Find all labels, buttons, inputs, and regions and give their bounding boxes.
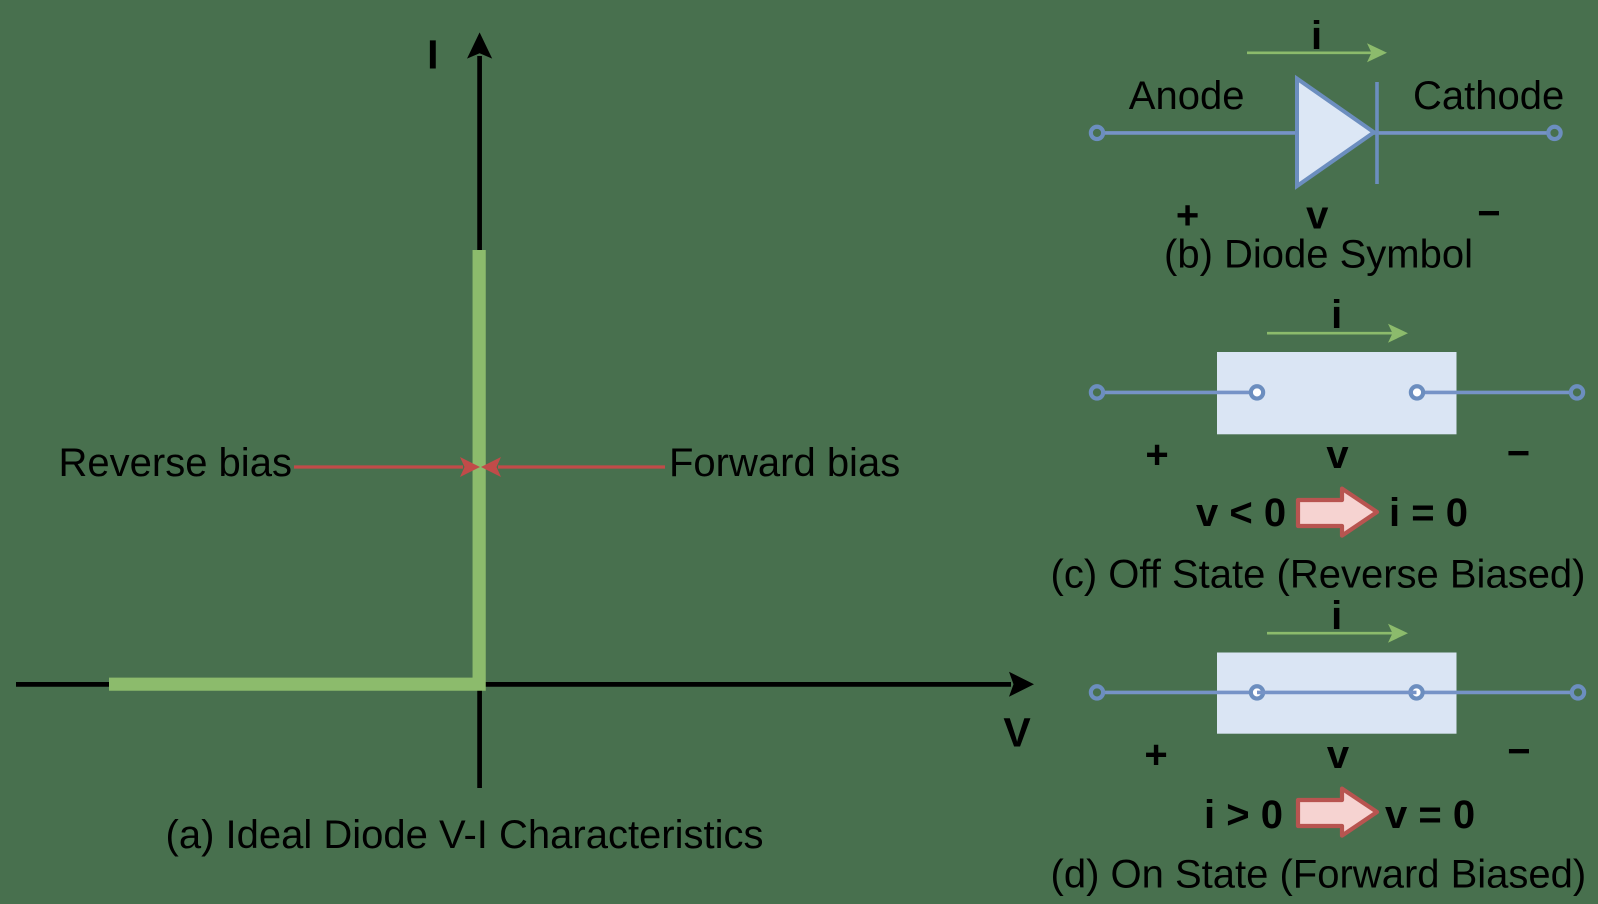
- svg-text:+: +: [1145, 433, 1168, 477]
- current arrow (green): [1247, 43, 1387, 62]
- I axis (vertical): [467, 32, 492, 788]
- right inner terminal: [1411, 386, 1423, 398]
- right outer terminal: [1572, 686, 1584, 698]
- left outer terminal: [1091, 686, 1103, 698]
- svg-text:v < 0: v < 0: [1196, 491, 1286, 535]
- right inner terminal: [1410, 686, 1422, 698]
- forward bias arrow (red, pointing left to origin): [481, 457, 665, 477]
- reverse bias arrow (red, pointing right to origin): [294, 457, 480, 477]
- svg-text:i = 0: i = 0: [1389, 491, 1468, 535]
- svg-text:+: +: [1144, 733, 1167, 777]
- svg-text:+: +: [1176, 194, 1199, 238]
- right wire: [1425, 691, 1571, 695]
- V axis (horizontal): [16, 672, 1034, 697]
- right wire: [1425, 391, 1569, 395]
- svg-text:−: −: [1477, 192, 1500, 236]
- through wire (short circuit): [1257, 691, 1417, 695]
- svg-text:(d) On State (Forward Biased): (d) On State (Forward Biased): [1051, 853, 1587, 897]
- svg-text:v: v: [1326, 433, 1349, 477]
- right outer terminal: [1571, 386, 1583, 398]
- left outer terminal: [1091, 386, 1103, 398]
- svg-text:(a) Ideal Diode V-I Characteri: (a) Ideal Diode V-I Characteristics: [166, 813, 764, 857]
- anode terminal: [1091, 127, 1103, 139]
- implies block arrow: [1298, 489, 1377, 536]
- svg-text:Cathode: Cathode: [1413, 74, 1564, 118]
- left wire: [1105, 391, 1249, 395]
- svg-text:V: V: [1003, 710, 1031, 756]
- svg-text:−: −: [1507, 730, 1530, 774]
- diode cathode bar: [1375, 82, 1379, 184]
- svg-text:Anode: Anode: [1129, 74, 1245, 118]
- left inner terminal: [1251, 386, 1263, 398]
- implies block arrow: [1298, 789, 1377, 836]
- svg-text:v: v: [1327, 733, 1350, 777]
- diode body box: [1217, 352, 1457, 434]
- svg-text:Reverse bias: Reverse bias: [59, 441, 292, 485]
- diode D triangle: [1297, 79, 1374, 186]
- svg-text:i: i: [1331, 293, 1342, 337]
- svg-text:v = 0: v = 0: [1385, 793, 1475, 837]
- cathode terminal: [1548, 127, 1560, 139]
- diode body box: [1217, 653, 1457, 734]
- left wire: [1105, 691, 1249, 695]
- ideal diode V-I curve (green): [109, 250, 479, 684]
- svg-text:(c) Off State (Reverse Biased): (c) Off State (Reverse Biased): [1051, 553, 1586, 597]
- svg-text:i > 0: i > 0: [1204, 793, 1283, 837]
- current arrow (green): [1267, 624, 1408, 643]
- current arrow (green): [1267, 324, 1408, 343]
- svg-text:(b) Diode Symbol: (b) Diode Symbol: [1164, 233, 1473, 277]
- svg-text:I: I: [427, 32, 438, 78]
- svg-text:i: i: [1331, 594, 1342, 638]
- left inner terminal: [1251, 686, 1263, 698]
- svg-text:i: i: [1311, 14, 1322, 58]
- svg-text:−: −: [1507, 432, 1530, 476]
- svg-text:Forward bias: Forward bias: [669, 441, 900, 485]
- svg-text:v: v: [1306, 194, 1329, 238]
- anode wire: [1105, 131, 1547, 135]
